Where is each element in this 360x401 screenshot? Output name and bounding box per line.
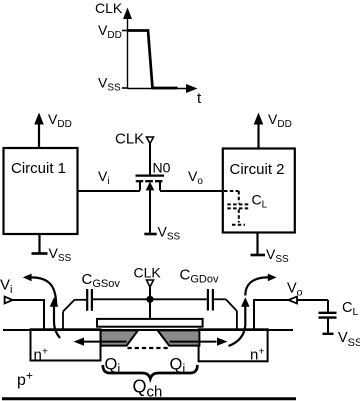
svg-text:CLK: CLK	[95, 0, 123, 16]
curved arrow up left (source current)	[54, 307, 60, 339]
circuit2 box	[223, 149, 295, 233]
arrowhead up right	[241, 297, 250, 307]
curved arrow out to Vo	[245, 277, 268, 295]
channel charge gray region right	[158, 330, 200, 345]
VDD level tick	[122, 30, 128, 32]
VSS bar circuit2	[251, 254, 266, 257]
CL wire vertical top	[327, 300, 329, 313]
dashed depletion edge under channel	[128, 347, 171, 349]
arrowhead right charge flow	[217, 338, 228, 346]
capacitor CGSov left plate	[86, 289, 88, 311]
transistor N0 channel segment right	[155, 180, 162, 182]
silicon surface line	[3, 329, 293, 331]
capacitor CL bottom plate	[319, 316, 337, 318]
substrate bottom line	[2, 397, 296, 400]
transistor N0 bulk arrow	[146, 182, 155, 191]
capacitor CL top plate	[319, 312, 337, 314]
VSS bar transistor	[144, 233, 156, 236]
VSS bar CL	[323, 333, 334, 335]
VSS wire circuit2	[256, 233, 258, 255]
CGSov left wire diagonal	[63, 300, 75, 312]
charge flow arrow left (channel to source)	[82, 341, 127, 343]
VSS wire circuit1	[38, 234, 40, 253]
gate wire N0	[149, 144, 151, 175]
transistor N0 bulk wire to VSS	[149, 189, 151, 234]
VDD supply wire circuit1	[38, 123, 40, 149]
capacitor CGDov left plate	[207, 289, 209, 311]
junction dot CLK node	[146, 296, 153, 303]
dashed capacitor CL top plate (circuit2)	[227, 203, 250, 205]
charge flow arrow right (channel to drain)	[170, 341, 217, 343]
CLK wire down to junction	[149, 287, 151, 296]
n+ well left	[31, 329, 101, 360]
CGSov left wire vertical to source	[62, 312, 64, 330]
svg-text:Circuit 1: Circuit 1	[11, 160, 66, 177]
dashed CL wire vertical bottom (circuit2)	[238, 209, 240, 222]
arrowhead up left	[50, 297, 59, 307]
CLK waveform trace	[128, 31, 178, 89]
CLK input triangle (cross-section)	[147, 280, 154, 287]
svg-text:Circuit 2: Circuit 2	[230, 161, 285, 178]
CGDov right wire diagonal	[226, 299, 237, 311]
dashed capacitor CL bottom plate (circuit2)	[227, 207, 250, 209]
CLK waveform vertical axis	[127, 15, 129, 89]
VSS bar circuit1	[32, 252, 48, 255]
waveform axis right arrowhead	[186, 84, 198, 93]
transistor N0 channel segment left	[136, 180, 143, 182]
channel charge gray region left	[101, 330, 138, 345]
wire Vo terminal	[254, 299, 289, 301]
curved arrow out to Vi	[31, 277, 56, 306]
CL wire vertical bottom	[327, 318, 329, 333]
CGSov left wire horizontal	[75, 299, 87, 301]
dashed CL wire horizontal (circuit2)	[224, 190, 239, 192]
VDD arrowhead circuit2	[254, 113, 264, 125]
dashed CL wire vertical top (circuit2)	[238, 191, 240, 203]
arrowhead out to Vo	[268, 274, 277, 282]
gate electrode rectangle	[97, 319, 203, 327]
arrowhead left charge flow	[74, 338, 85, 346]
wire Vi down to source contact	[43, 299, 45, 330]
svg-text:N0: N0	[153, 160, 171, 176]
brace under channel	[103, 365, 198, 379]
VSS level tick	[122, 87, 128, 89]
VDD arrowhead circuit1	[34, 113, 44, 125]
svg-text:CLK: CLK	[134, 265, 162, 281]
svg-text:CLK: CLK	[115, 131, 144, 148]
transistor N0 channel segment middle	[145, 180, 153, 182]
wire Vi terminal	[12, 299, 44, 301]
CLK input triangle (gate)	[147, 137, 154, 144]
n+ well right	[199, 329, 268, 361]
CLK wire down to gate	[149, 299, 151, 319]
transistor N0 gate bar	[136, 174, 165, 176]
VDD supply wire circuit2	[257, 123, 259, 149]
curved arrow up right (drain current)	[229, 307, 246, 347]
capacitor CGSov right plate	[91, 289, 93, 311]
circuit1 box	[4, 148, 78, 234]
CGDov right wire horizontal	[214, 298, 226, 300]
Vo terminal triangle	[288, 297, 297, 304]
CGDov right wire vertical to drain	[236, 311, 238, 330]
wire Vi (circuit1 to N0)	[78, 190, 141, 192]
transistor N0 source terminal	[139, 181, 141, 191]
capacitor CGDov right plate	[212, 289, 214, 311]
waveform axis up arrowhead	[123, 8, 132, 20]
transistor N0 drain terminal	[159, 181, 161, 191]
wire Vo (N0 to circuit2)	[160, 190, 223, 192]
Vi terminal triangle	[5, 297, 13, 304]
waveform horizontal axis	[128, 88, 188, 90]
wire Vo down to drain contact	[253, 299, 255, 330]
arrowhead out to Vi	[23, 274, 32, 282]
CLK horizontal wire between overlap capacitors	[93, 298, 207, 300]
wire Vo to CL	[297, 299, 328, 301]
dashed CL ground bar (circuit2)	[232, 224, 245, 226]
